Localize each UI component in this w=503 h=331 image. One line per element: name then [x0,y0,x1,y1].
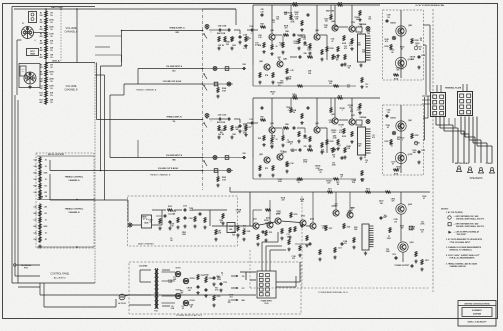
bus wire treble ampl A [122,30,203,32]
volume ladder channel B resistors R8-R13 [39,63,54,105]
svg-text:SEL: SEL [22,71,25,73]
title block [458,301,496,327]
svg-text:AD-28987-D: AD-28987-D [54,277,67,280]
bass network R105 [167,209,173,211]
svg-text:SCHEMATIC: SCHEMATIC [472,309,483,312]
svg-text:INPUT: INPUT [21,69,25,71]
svg-text:IDENTICAL TO CHANNEL A.: IDENTICAL TO CHANNEL A. [450,249,473,252]
channel B volume input connectors [203,157,243,159]
ground treble B [38,245,41,249]
svg-text:R6D R10D: R6D R10D [217,122,226,124]
svg-text:R105: R105 [168,206,172,208]
svg-text:LEVEL B+: LEVEL B+ [52,61,60,63]
channel A output stage [383,10,424,80]
channel A front end components [205,25,209,29]
svg-text:R111: R111 [269,232,272,234]
svg-text:2.2M: 2.2M [277,213,281,215]
power transformer T701 [155,268,176,309]
svg-text:VOLUME OUT B BLND: VOLUME OUT B BLND [158,168,179,170]
volume ladder channel A resistors R1-R7 [39,8,54,105]
svg-text:VTVM, NO SIGNAL INPUT.: VTVM, NO SIGNAL INPUT. [450,241,471,244]
svg-text:R6B R10B: R6B R10B [217,33,226,35]
tube V1 12AX7 [22,27,34,39]
svg-text:Q103: Q103 [301,216,305,218]
svg-text:.1: .1 [287,109,288,111]
channel A amplifier cluster [253,4,380,6]
svg-text:560: 560 [226,44,229,46]
svg-text:R219: R219 [347,227,351,229]
power amp network [281,228,283,234]
bus wire volume input B [110,157,203,159]
svg-text:SPEAKERS: SPEAKERS [470,177,483,180]
svg-text:.05: .05 [149,222,151,224]
svg-text:CHANNEL B: CHANNEL B [64,88,78,91]
svg-text:ORN BLK: ORN BLK [486,163,494,165]
svg-text:560: 560 [180,293,183,295]
amp section boundary dash-dot [202,9,204,190]
svg-text:POWER OUTPUT: POWER OUTPUT [395,265,411,267]
ps wires to plug [240,271,256,273]
svg-text:R703: R703 [217,296,221,298]
svg-text:C103: C103 [183,206,187,208]
power amp misc [380,216,383,220]
svg-text:220: 220 [329,83,332,85]
speaker 4 [490,167,495,173]
svg-text:220: 220 [383,217,386,219]
svg-text:TREBLE CONTROL: TREBLE CONTROL [65,209,84,211]
svg-text:VOLUME OUT A BLK: VOLUME OUT A BLK [163,80,182,83]
svg-text:220K: 220K [49,78,54,80]
svg-text:— INPUT BETWEEN PIN 7 AND: — INPUT BETWEEN PIN 7 AND [454,215,480,218]
svg-text:.1: .1 [341,110,342,112]
svg-text:.1: .1 [303,39,304,41]
svg-text:CHANNEL A: CHANNEL A [68,179,80,182]
svg-text:.01: .01 [44,220,46,222]
svg-text:R17D: R17D [293,95,298,97]
svg-text:.02: .02 [386,127,388,129]
long bottom wire 2 [44,306,116,308]
svg-text:47: 47 [341,176,343,179]
channel A volume input connectors [203,68,243,70]
svg-text:470: 470 [228,301,231,304]
svg-text:.005: .005 [44,192,47,194]
AC plug wires [125,295,129,296]
svg-text:.02: .02 [271,94,273,96]
power amp Q204 [267,222,273,228]
svg-text:2.2M: 2.2M [357,109,361,111]
svg-text:2. DC VOLTS MEASURED TO GROUN: 2. DC VOLTS MEASURED TO GROUND WITH [446,238,483,241]
wire V1 to chain [34,32,47,34]
treble junction dot [76,246,78,248]
svg-text:THIS POINT: THIS POINT [457,234,467,236]
svg-text:100K: 100K [49,33,54,35]
channel B switch arrow 1 [204,161,207,166]
svg-text:47: 47 [290,142,292,145]
svg-text:V1: V1 [22,23,24,25]
svg-text:470: 470 [385,40,388,43]
svg-text:47: 47 [416,44,418,47]
svg-text:R217: R217 [329,228,333,230]
svg-text:470: 470 [392,200,395,203]
treble control A components [34,156,49,200]
svg-text:COLORED: COLORED [139,265,148,267]
svg-text:TREBLE CHANNEL A: TREBLE CHANNEL A [136,88,157,91]
svg-text:.01: .01 [44,179,46,181]
bus wire volume out B [50,170,203,172]
wire volume out B drop [49,160,51,171]
rectifier CR702 [183,278,188,283]
power amp feed wire [249,192,251,226]
channel A volume out connectors [203,83,234,85]
svg-text:470: 470 [372,136,375,139]
svg-text:DIAGRAM: DIAGRAM [473,312,482,315]
svg-text:INPUT: INPUT [30,51,35,53]
connector circle TM [16,264,40,266]
dashed divider volume A [60,9,62,63]
rectifier CR703 [175,293,180,298]
power amp top rail [230,191,430,193]
svg-text:TREBLE CHANNEL B: TREBLE CHANNEL B [150,174,171,177]
svg-text:.001: .001 [229,297,232,299]
svg-text:47: 47 [143,217,145,220]
svg-text:VOLUME: VOLUME [66,26,77,30]
svg-text:470: 470 [350,110,353,113]
channel B amplifier cluster [253,97,380,99]
ps filter R701 [197,274,199,280]
input transformer box T1 [27,49,39,56]
svg-text:T701: T701 [154,311,158,313]
svg-text:VOLUME: VOLUME [66,84,77,88]
terminal plate top wires [436,85,438,92]
svg-text:CHANNEL B: CHANNEL B [68,211,80,214]
bundle step C [96,63,98,120]
long bottom wire 1 [40,294,256,296]
svg-text:.1: .1 [338,147,339,149]
bus wire volume out A [124,83,203,85]
channel B output wires [423,117,428,119]
svg-text:47: 47 [392,163,394,166]
svg-text:.001: .001 [271,137,274,139]
svg-text:4. VOLTS “HIGH”, JUMPER “SMAL: 4. VOLTS “HIGH”, JUMPER “SMALL-OUT” [446,254,480,257]
svg-text:220: 220 [368,18,371,20]
ps out arrows [231,275,238,277]
tube shield box [19,64,40,88]
svg-text:47: 47 [351,209,353,212]
power amp scatter labels [264,196,426,260]
transformer input wires [129,294,151,296]
terminal plate 1 [431,93,446,117]
svg-text:.02: .02 [421,232,423,234]
svg-text:R215: R215 [294,214,298,216]
speaker 1 [457,166,462,172]
svg-text:.1: .1 [402,139,403,141]
svg-text:.05: .05 [319,172,321,174]
svg-text:R21B: R21B [338,2,343,4]
svg-text:CERTIFIED CUSTOM ELECTRONIC: CERTIFIED CUSTOM ELECTRONIC [464,303,491,305]
svg-text:220: 220 [282,200,285,202]
svg-text:TREBLE CONTROL: TREBLE CONTROL [65,177,84,179]
svg-text:POWER SUPPLY: POWER SUPPLY [261,301,272,303]
svg-text:R109: R109 [247,231,251,233]
svg-text:47: 47 [401,48,403,51]
svg-text:220K: 220K [49,26,54,28]
power supply plug block [257,271,276,298]
input jack box J1 [29,12,37,23]
svg-text:P701: P701 [24,267,28,269]
svg-text:TERMINAL PLATE: TERMINAL PLATE [445,86,462,89]
treble box top wire [37,155,94,157]
svg-text:560: 560 [325,20,328,22]
input select box [20,66,26,76]
svg-text:CHANNEL LEAD NO.: CHANNEL LEAD NO. [450,265,467,268]
svg-text:FOR ALL AC MEASUREMENTS.: FOR ALL AC MEASUREMENTS. [450,256,476,259]
bass input transformer box [142,215,152,228]
svg-text:2N3055: 2N3055 [390,23,396,25]
power amp cap bank [362,224,369,250]
rectifier CR704 [183,300,188,305]
svg-text:.005: .005 [44,207,47,209]
svg-text:470: 470 [344,47,347,50]
speaker wire runs [436,117,492,164]
ps filter C701 [213,276,216,280]
svg-text:.02: .02 [44,166,46,168]
amp right boundary dashed [432,9,434,292]
bus wire volume input A [138,68,203,70]
bass wires [152,224,162,226]
channel A output wires to terminal [423,24,430,26]
svg-text:2.2M: 2.2M [294,43,298,45]
svg-text:470K: 470K [49,70,54,73]
svg-text:470: 470 [270,145,273,148]
svg-text:.05: .05 [44,160,46,162]
AC plug [119,294,125,300]
svg-text:.1: .1 [250,126,251,128]
treble pot A [39,194,43,200]
svg-text:.001: .001 [188,290,191,292]
power amp lower parts [299,245,301,251]
ps filter R703 [213,295,215,301]
bass preamp Q102 [275,218,281,224]
tube V2 12AX7 [24,72,36,84]
svg-text:R21D: R21D [338,95,343,97]
left vertical wires [14,95,16,276]
bass network caps [184,216,187,220]
power amp out Q208 [398,206,404,212]
svg-text:BRN ORN GRN BLU: BRN ORN GRN BLU [455,163,469,165]
channel B output stage [383,105,424,175]
svg-text:Q204: Q204 [266,216,270,219]
svg-text:POWER AMPLIFIER AD-76-G: POWER AMPLIFIER AD-76-G [318,291,348,294]
svg-text:470: 470 [281,81,284,84]
svg-text:R233: R233 [425,260,429,262]
svg-text:.02: .02 [334,28,336,30]
svg-text:.001: .001 [361,181,364,183]
svg-text:C6D C10D: C6D C10D [218,115,227,117]
top amp boundary corner [203,8,237,10]
svg-text:TREBLE AMPL B: TREBLE AMPL B [166,116,182,119]
svg-text:R213: R213 [366,188,370,190]
svg-text:VOLUME INPUT A: VOLUME INPUT A [166,65,183,68]
power amp out wires [400,192,402,204]
svg-text:Q101: Q101 [253,219,257,221]
speaker 3 [479,167,484,173]
svg-text:47: 47 [365,161,367,164]
svg-text:Q205: Q205 [310,218,314,220]
bus wire treble ampl B [97,119,203,121]
bass preamp Q103 [300,220,306,226]
svg-text:CHANNEL A: CHANNEL A [65,30,78,33]
svg-text:470: 470 [292,257,295,260]
svg-text:.1: .1 [416,145,417,147]
terminal plate 2 [458,92,473,116]
level tap wire [46,62,95,64]
svg-text:2N3055: 2N3055 [390,118,396,120]
svg-text:Q10D: Q10D [408,154,413,156]
svg-text:R11B R15B: R11B R15B [284,13,293,15]
svg-text:.05: .05 [181,308,183,310]
top rail wire [14,8,236,10]
svg-text:C702: C702 [223,282,227,284]
svg-text:NOTES:: NOTES: [441,209,449,211]
svg-text:.1: .1 [217,279,218,281]
power amp q drops [335,192,337,210]
svg-text:.02: .02 [364,157,366,159]
svg-text:.1: .1 [221,275,222,277]
ps filter R702 [205,277,207,283]
wire panel drop [16,40,18,95]
svg-text:220: 220 [276,18,279,20]
svg-text:AC PLUG: AC PLUG [118,302,126,305]
svg-text:47: 47 [332,40,334,43]
svg-text:47: 47 [423,197,425,200]
bundle step A [121,31,123,67]
svg-text:.1: .1 [340,127,341,129]
svg-text:.05: .05 [44,239,46,241]
svg-text:560: 560 [236,129,239,131]
power amp boundary dashed [301,196,303,288]
ground under V2 [28,85,31,89]
svg-text:— INPUT BETWEEN PIN 7 AND: — INPUT BETWEEN PIN 7 AND [454,222,480,225]
speaker 2 [468,167,473,173]
bass R114 box [227,223,235,233]
power supply dashed box [129,262,301,314]
notes text block [441,209,485,269]
power amp out Q209 [400,244,406,250]
plug step wires [261,242,263,271]
bass channel dashed box [128,196,238,246]
wires ps plug right [276,281,300,283]
svg-text:100: 100 [387,17,390,19]
svg-text:47: 47 [265,221,267,224]
svg-text:POWER SUPPLY AD-73-1: POWER SUPPLY AD-73-1 [176,314,203,317]
svg-text:560: 560 [246,39,249,41]
treble control B components [34,203,49,243]
svg-text:2.2M: 2.2M [333,138,337,140]
svg-text:T2: T2 [146,219,148,221]
inner treble sub-box dashed [36,153,94,248]
wire bass feed [50,199,128,201]
svg-text:.1: .1 [250,33,251,35]
channel A switch arrow 1 [204,74,207,79]
svg-text:.001: .001 [343,243,346,245]
bass resistors row [215,229,217,235]
control panel outline box [12,7,95,284]
bundle step D [104,75,106,200]
svg-text:TREBLE AMPL A: TREBLE AMPL A [169,27,185,30]
channel B volume out connectors [203,170,234,172]
svg-text:.1: .1 [399,128,400,130]
svg-text:3. CHANNEL B VOLTAGE MEASUREM: 3. CHANNEL B VOLTAGE MEASUREMENTS [446,246,482,249]
svg-text:R17B: R17B [293,2,298,4]
svg-text:R211: R211 [328,188,332,190]
svg-text:BASS CHANNEL: BASS CHANNEL [138,242,155,245]
ps scatter labels [168,273,234,311]
svg-text:CONTROL PANEL: CONTROL PANEL [50,273,70,276]
svg-text:2.2M: 2.2M [358,26,362,28]
svg-text:R702: R702 [209,278,213,280]
svg-text:— CHK 2% RIPPLE NORMAL AT: — CHK 2% RIPPLE NORMAL AT [454,230,481,233]
svg-text:2.2M: 2.2M [244,127,248,129]
channel A switch arrow 2 [204,86,207,91]
svg-text:2.2M: 2.2M [332,132,336,134]
svg-text:C223: C223 [392,254,396,256]
svg-text:560: 560 [397,139,400,141]
svg-text:1. AC VOLTS (RMS): 1. AC VOLTS (RMS) [446,211,463,214]
bass channel input connector [128,223,132,227]
bundle step B [137,69,139,85]
svg-text:.02: .02 [44,233,46,235]
svg-text:.001: .001 [355,19,358,21]
svg-text:.001: .001 [347,87,350,89]
power amp Q205 [310,223,316,229]
power amp Q206 [333,210,339,216]
svg-text:GROUND, 140MV SMALL, 800 CPS.: GROUND, 140MV SMALL, 800 CPS. [456,225,485,228]
svg-text:470: 470 [401,68,404,71]
rectifier CR701 [175,271,180,276]
wire volume A right [76,9,78,63]
svg-text:100: 100 [387,112,390,114]
svg-text:470K: 470K [49,18,54,21]
svg-text:100K: 100K [49,85,54,87]
ps filter C702 [220,282,223,286]
svg-text:Q208: Q208 [408,204,412,206]
svg-text:CR702: CR702 [190,278,195,280]
svg-text:12AX7 12AX7: 12AX7 12AX7 [51,6,65,9]
svg-text:470: 470 [295,13,298,16]
svg-text:C217: C217 [338,248,342,250]
power amp Q207 [347,212,353,218]
bass scatter labels [142,208,246,242]
svg-text:YEL: YEL [172,121,175,123]
svg-text:.1: .1 [300,38,301,40]
channel B front end components [205,114,209,118]
bass preamp Q101 [253,223,259,229]
svg-text:VOLUME INPUT B: VOLUME INPUT B [166,155,183,157]
treble mid wire [37,199,95,201]
channel B R26D [217,171,219,177]
svg-text:.05: .05 [332,156,334,158]
svg-text:C6B C10B: C6B C10B [218,26,227,28]
svg-text:2.2M: 2.2M [236,212,240,214]
svg-text:2.2M: 2.2M [329,122,333,124]
svg-text:CR701: CR701 [176,268,181,270]
svg-text:Q209: Q209 [409,242,413,244]
channel A R26B [217,84,219,88]
svg-text:.02: .02 [272,22,274,24]
svg-text:470: 470 [285,27,288,30]
svg-text:5. TREBLE CHANNEL LEAD NO. B: 5. TREBLE CHANNEL LEAD NO. BASS [446,263,478,266]
svg-text:GROUND, 450MV SMALL, 800 CPS.: GROUND, 450MV SMALL, 800 CPS. [456,217,485,220]
